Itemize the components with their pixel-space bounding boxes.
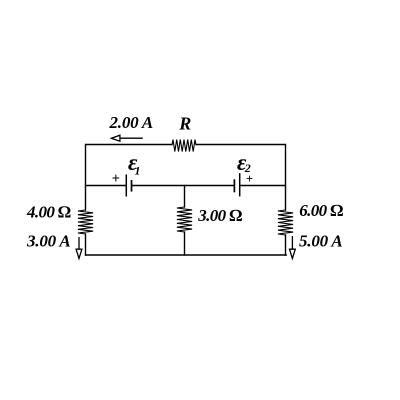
wire left lower xyxy=(85,234,87,255)
wire between batteries xyxy=(132,185,234,187)
svg-text:+: + xyxy=(246,172,253,186)
svg-text:R: R xyxy=(178,114,191,134)
wire middle-left (node to battery E1) xyxy=(86,185,126,187)
svg-text:3.00 A: 3.00 A xyxy=(26,232,71,251)
resistor 3.00 ohm xyxy=(177,207,192,232)
wire middle branch upper xyxy=(184,186,186,208)
wire middle-right (battery E2 to right branch) xyxy=(241,185,286,187)
battery E1 plates xyxy=(126,175,131,197)
wire right lower xyxy=(285,235,287,255)
svg-text:1: 1 xyxy=(135,163,141,177)
svg-text:4.00 Ω: 4.00 Ω xyxy=(26,202,71,221)
resistor 4.00 ohm xyxy=(78,210,93,234)
current arrow 2.00 A (left-pointing, open head) xyxy=(111,135,142,141)
battery E2 plates xyxy=(234,173,239,196)
current arrow 5.00 A (down, open head) xyxy=(290,236,296,259)
wire middle branch lower xyxy=(184,232,186,255)
svg-text:5.00 A: 5.00 A xyxy=(299,232,343,251)
svg-text:2.00 A: 2.00 A xyxy=(109,113,154,132)
wire bottom xyxy=(86,254,287,256)
wire top-right segment xyxy=(196,145,286,211)
svg-text:3.00 Ω: 3.00 Ω xyxy=(197,206,242,225)
svg-text:6.00 Ω: 6.00 Ω xyxy=(299,201,343,220)
svg-text:+: + xyxy=(112,171,120,187)
resistor R xyxy=(172,140,196,152)
current arrow 3.00 A (down, open head) xyxy=(76,237,82,259)
resistor 6.00 ohm xyxy=(278,210,293,235)
wire top-left segment xyxy=(86,145,173,211)
